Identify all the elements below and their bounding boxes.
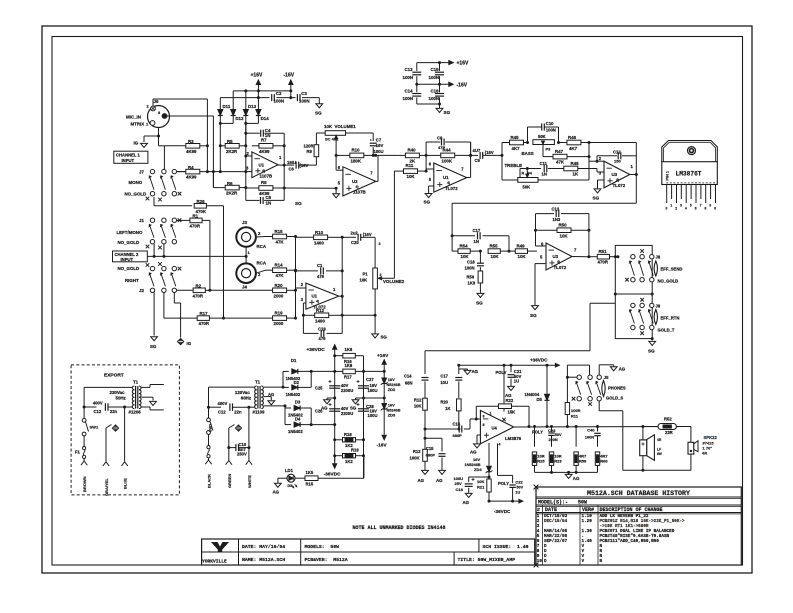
svg-text:AG: AG (619, 367, 626, 372)
svg-text:479: 479 (317, 274, 325, 279)
svg-text:470R: 470R (193, 293, 204, 298)
ground AG C19c (465, 493, 472, 497)
svg-text:680P: 680P (453, 433, 463, 438)
svg-text:4): 4) (557, 260, 560, 264)
ground chassis export (105, 428, 107, 462)
svg-text:R56: R56 (467, 275, 475, 280)
svg-text:1N: 1N (266, 200, 272, 205)
svg-text:R1: R1 (193, 213, 199, 218)
border outer frame (42, 26, 752, 573)
svg-text:POLY: POLY (498, 481, 509, 486)
svg-text:NO_GOLD: NO_GOLD (118, 266, 140, 271)
capacitor C21 POLY (510, 365, 512, 372)
svg-text:AG: AG (573, 476, 580, 481)
svg-text:100N: 100N (546, 128, 556, 133)
svg-text:470R: 470R (199, 321, 210, 326)
capacitor C26 (329, 408, 340, 410)
svg-text:R18: R18 (344, 432, 352, 437)
svg-text:WHITE: WHITE (247, 475, 252, 488)
svg-text:J8: J8 (656, 255, 661, 260)
svg-text:RCA: RCA (257, 261, 267, 266)
svg-text:R15: R15 (306, 481, 314, 486)
svg-text:AG: AG (470, 450, 477, 455)
svg-text:R17: R17 (344, 375, 352, 380)
svg-text:U1: U1 (443, 175, 449, 180)
svg-text:1K: 1K (573, 172, 579, 177)
svg-text:R22: R22 (506, 398, 514, 403)
svg-text:P3: P3 (546, 147, 552, 152)
svg-text:16V: 16V (376, 143, 384, 148)
svg-text:J6: J6 (154, 99, 159, 104)
svg-text:400V: 400V (218, 401, 228, 406)
resistor R55 (500, 250, 509, 252)
wire LM V- pin (497, 444, 499, 476)
wire phones out (598, 401, 600, 411)
capacitor C5 (246, 199, 260, 201)
wire U1b out bus (339, 295, 342, 297)
wire BLUE (124, 407, 126, 462)
svg-text:NO_GOLD: NO_GOLD (118, 240, 140, 245)
svg-text:47K: 47K (276, 273, 285, 278)
wire pin2 stub (246, 155, 252, 157)
wire damp network gnd (535, 471, 598, 473)
svg-text:R20: R20 (440, 400, 448, 405)
svg-text:R44: R44 (443, 147, 452, 152)
resistor R1 (177, 219, 190, 221)
svg-text:100K: 100K (442, 158, 453, 163)
svg-text:LM3876: LM3876 (505, 436, 522, 441)
svg-text:EFF_SEND: EFF_SEND (661, 267, 683, 272)
svg-text:MIC_IN: MIC_IN (126, 115, 141, 120)
resistor R47 (543, 156, 553, 158)
svg-text:C5: C5 (266, 195, 272, 200)
wire amp feed (425, 350, 590, 352)
svg-text:10K: 10K (560, 234, 569, 239)
wire pin3 row (220, 171, 252, 173)
svg-text:1K2: 1K2 (345, 459, 353, 464)
svg-text:100R: 100R (571, 408, 581, 413)
svg-text:SG: SG (476, 301, 483, 306)
svg-text:R10: R10 (315, 230, 324, 235)
connector J9 EFF_RTN (631, 303, 635, 307)
svg-text:1K8: 1K8 (345, 363, 353, 368)
svg-text:10K: 10K (407, 174, 416, 179)
svg-text:R13: R13 (413, 449, 421, 454)
svg-text:SG: SG (444, 110, 451, 115)
svg-text:LM3876T: LM3876T (676, 171, 702, 178)
capacitor C13b fb (536, 213, 555, 215)
svg-text:R3: R3 (188, 139, 194, 144)
svg-text:C7: C7 (376, 138, 382, 143)
svg-text:INPUT: INPUT (122, 158, 135, 163)
svg-text:SG: SG (350, 406, 357, 411)
svg-text:4): 4) (616, 178, 619, 182)
power rail +16V arrow (256, 80, 261, 85)
wire bus A (334, 345, 336, 467)
svg-text:EFF_RTN: EFF_RTN (661, 316, 680, 321)
treble row C11 (520, 168, 541, 170)
wire amp rail (459, 364, 560, 366)
svg-text:SCH ISSUE: 1.40: SCH ISSUE: 1.40 (483, 544, 529, 550)
wire rail upper (233, 90, 291, 92)
svg-text:100U: 100U (368, 388, 378, 393)
svg-text:SW1: SW1 (90, 425, 99, 430)
wire XLR to J7 (158, 136, 160, 146)
diode D4 (294, 422, 300, 427)
zener ZD4 (488, 443, 490, 466)
wire feedback bus left (245, 123, 247, 145)
fuse F1 main (208, 434, 210, 445)
svg-text:D5: D5 (537, 397, 543, 402)
svg-text:C18: C18 (456, 487, 464, 492)
svg-text:U2: U2 (352, 179, 358, 184)
svg-text:ZD4: ZD4 (474, 467, 482, 472)
resistor R14 (256, 270, 265, 273)
svg-text:10K: 10K (360, 278, 368, 283)
wire U3tone pin2 (597, 160, 604, 162)
svg-text:100U: 100U (368, 413, 378, 418)
svg-text:50Hz: 50Hz (116, 396, 127, 401)
power -16V arrow right (449, 82, 454, 87)
svg-text:1K: 1K (445, 406, 450, 411)
svg-text:6: 6 (695, 207, 697, 211)
svg-text:POLY: POLY (532, 430, 543, 435)
svg-text:R4: R4 (188, 165, 194, 170)
capacitor C17c 10U (458, 365, 460, 374)
svg-text:C3: C3 (301, 91, 307, 96)
svg-text:9: 9 (709, 204, 711, 208)
svg-text:R25: R25 (537, 459, 545, 464)
svg-text:479: 479 (319, 336, 327, 341)
svg-text:V: V (582, 559, 585, 564)
capacitor C12 tone fb (589, 160, 597, 162)
svg-text:D11: D11 (223, 104, 231, 109)
svg-text:2: 2 (675, 207, 677, 211)
connector J8 EFF_SEND (631, 255, 635, 259)
svg-text:U3: U3 (553, 254, 559, 259)
wire decouple top rail (417, 62, 450, 64)
svg-text:4): 4) (447, 181, 450, 185)
resistor R12c (423, 398, 428, 410)
wire U3b output (572, 256, 589, 258)
op-amp U3b TL072 eff (536, 245, 547, 247)
svg-text:1: 1 (670, 204, 672, 208)
wire channel2 bus (147, 255, 246, 257)
svg-text:4: 4 (685, 207, 687, 211)
op-amp U3 tone TL072 (604, 161, 630, 188)
svg-text:230Vac: 230Vac (110, 390, 125, 395)
svg-text:YORKVILLE: YORKVILLE (202, 558, 227, 564)
svg-text:1N5402: 1N5402 (286, 392, 301, 397)
ground SG C27 (356, 397, 364, 399)
wire fb verticals (535, 214, 537, 246)
capacitor C18 (479, 251, 481, 263)
resistor R4 (177, 171, 186, 173)
svg-text:1400: 1400 (315, 318, 325, 323)
capacitor C19c 100U (469, 476, 489, 478)
svg-text:100K: 100K (409, 456, 419, 461)
wire rail lower (220, 97, 269, 99)
svg-text:T1: T1 (133, 380, 139, 385)
svg-text:R17: R17 (200, 311, 209, 316)
svg-text:-36VDC: -36VDC (324, 472, 342, 478)
svg-text:D1: D1 (291, 358, 297, 363)
svg-text:PCB&VER: M512A: PCB&VER: M512A (305, 557, 348, 563)
capacitor C10 bass (527, 127, 529, 143)
resistor R46 (559, 142, 567, 144)
svg-text:1K9: 1K9 (468, 281, 476, 286)
svg-text:4): 4) (316, 300, 319, 304)
wire R40 row (378, 154, 398, 156)
wire R6 branch (212, 172, 214, 188)
capacitor C12b main (229, 403, 231, 411)
svg-text:R45: R45 (511, 135, 520, 140)
ground AG C17 (459, 368, 468, 370)
resistor R9 (315, 157, 317, 165)
resistor R19 (335, 455, 343, 457)
svg-text:M512A.SCH DATABASE HISTORY: M512A.SCH DATABASE HISTORY (587, 490, 690, 497)
svg-text:GOLD_T: GOLD_T (658, 328, 675, 333)
svg-text:1N: 1N (542, 172, 547, 177)
svg-text:16V: 16V (473, 457, 480, 462)
svg-text:+16V: +16V (251, 73, 263, 79)
svg-text:1U: 1U (514, 379, 519, 384)
svg-text:1K8: 1K8 (345, 347, 353, 352)
svg-text:C19: C19 (318, 326, 326, 331)
svg-text:BLUE: BLUE (123, 478, 128, 489)
svg-text:SW1: SW1 (209, 424, 213, 432)
svg-text:150: 150 (614, 159, 621, 164)
capacitor C1 (296, 270, 319, 272)
svg-text:4K7: 4K7 (512, 146, 521, 151)
capacitor C9 output 4U7 (471, 154, 478, 156)
svg-text:C18: C18 (467, 260, 475, 265)
svg-text:0: 0 (666, 207, 668, 211)
svg-text:68N: 68N (405, 381, 413, 386)
wire BROWN (81, 461, 84, 465)
capacitor C15 (435, 71, 444, 73)
svg-text:R54: R54 (460, 244, 469, 249)
svg-text:100N: 100N (465, 266, 475, 271)
resistor R51 (589, 256, 597, 258)
svg-text:ZD2: ZD2 (388, 387, 396, 392)
svg-text:GRA/YEL: GRA/YEL (104, 478, 109, 496)
node EXPORT dashed box (71, 365, 179, 495)
svg-text:#W: #W (657, 452, 662, 456)
svg-text:1MU: 1MU (287, 160, 296, 165)
svg-text:C2: C2 (276, 91, 282, 96)
svg-text:P1: P1 (363, 272, 369, 277)
svg-text:TL072: TL072 (554, 265, 567, 270)
svg-text:SG: SG (593, 196, 600, 201)
svg-text:R19: R19 (275, 311, 284, 316)
svg-text:10K VOLUME1: 10K VOLUME1 (324, 124, 356, 129)
svg-text:120Vac: 120Vac (235, 390, 250, 395)
svg-text:C8: C8 (437, 136, 443, 141)
svg-text:10K: 10K (518, 254, 527, 259)
svg-text:4K99: 4K99 (259, 149, 270, 154)
svg-text:ZD3: ZD3 (388, 413, 396, 418)
svg-text:J5: J5 (604, 375, 609, 380)
ground IG chassis chan2 (177, 338, 183, 344)
capacitor C15b (425, 437, 442, 439)
capacitor C14 (412, 93, 421, 95)
svg-text:160N: 160N (585, 436, 594, 440)
svg-text:-16V: -16V (284, 73, 295, 79)
potentiometer VOLUME1 10K (316, 132, 325, 134)
capacitor C22 POLY (509, 484, 515, 486)
svg-text:680P: 680P (426, 453, 436, 458)
svg-text:22n: 22n (110, 409, 118, 414)
svg-text:100N: 100N (274, 99, 285, 104)
ground AG C21 (508, 386, 515, 390)
svg-text:1N: 1N (474, 239, 479, 244)
table corner X marks (534, 485, 539, 490)
svg-text:RIGHT: RIGHT (125, 278, 139, 283)
resistor R45 (502, 142, 510, 144)
wire export primary (84, 386, 132, 388)
wire U1b output (467, 177, 471, 179)
speaker tweeter (690, 427, 692, 443)
ground AG R13 (422, 470, 429, 474)
svg-text:9: 9 (483, 415, 485, 419)
svg-text:R11: R11 (571, 414, 579, 419)
connector J4 RCA (236, 263, 256, 283)
svg-text:J3: J3 (242, 220, 247, 225)
svg-text:+36VDC: +36VDC (530, 358, 548, 363)
svg-text:R23: R23 (554, 459, 562, 464)
wire mixer2 bus (295, 237, 297, 319)
wire XLR pin3 to R6 bus (167, 115, 214, 117)
wire R8 node to U2 pin5 (284, 187, 336, 189)
resistor R2 (177, 289, 194, 291)
resistor R49 (509, 250, 515, 252)
potentiometer BASS 50K (533, 140, 555, 145)
svg-text:4R: 4R (702, 451, 707, 456)
capacitor C19b (303, 332, 318, 334)
svg-text:SG: SG (315, 111, 322, 116)
power rail -16V arrow (289, 80, 294, 85)
svg-text:16V: 16V (388, 403, 395, 408)
svg-text:47K: 47K (276, 240, 285, 245)
resistor R17b (335, 370, 343, 372)
wire U3 output node (635, 173, 638, 176)
node CHANNEL 2 INPUT box (113, 251, 148, 262)
ground SG R56 (477, 293, 484, 297)
svg-text:SC 492: SC 492 (325, 137, 339, 142)
svg-text:#1109: #1109 (253, 410, 266, 415)
capacitor C14b (422, 377, 429, 379)
wire U2 output feedback (376, 180, 378, 182)
resistor R20b (457, 399, 462, 411)
svg-text:1N3: 1N3 (553, 217, 561, 222)
resistor R15 (256, 236, 265, 239)
svg-text:R20: R20 (275, 283, 284, 288)
svg-text:R9: R9 (307, 149, 313, 154)
svg-text:7: 7 (700, 204, 702, 208)
wire LM V+ pin (503, 365, 505, 411)
svg-text:C11: C11 (540, 161, 548, 166)
svg-text:180K: 180K (351, 158, 362, 163)
svg-text:R21: R21 (477, 485, 485, 490)
capacitor C25 (329, 385, 340, 387)
svg-text:C14: C14 (405, 88, 414, 93)
svg-text:LF: LF (657, 448, 661, 452)
wire tone input node (501, 143, 503, 181)
svg-text:10U: 10U (440, 380, 448, 385)
potentiometer TREBLE 50K (519, 169, 521, 181)
resistor R54 (452, 250, 458, 252)
capacitor C16 (435, 93, 444, 95)
svg-text:J9: J9 (656, 304, 661, 309)
capacitor C10b 4n7 (227, 446, 230, 449)
svg-text:R59: R59 (579, 459, 587, 464)
capacitor C28 (358, 408, 369, 410)
svg-text:C27: C27 (366, 377, 374, 382)
svg-text:AG: AG (418, 478, 425, 483)
svg-text:C12: C12 (94, 409, 102, 414)
ground AG C25 (327, 397, 335, 399)
svg-text:C10: C10 (546, 121, 554, 126)
svg-text:IG: IG (134, 141, 139, 146)
svg-text:PIN 1: PIN 1 (665, 171, 669, 181)
svg-text:R55: R55 (490, 244, 499, 249)
resistor R15b (295, 477, 305, 479)
resistor R11 chan2 inject (394, 170, 403, 172)
zener ZD3 (382, 404, 387, 410)
svg-text:400V: 400V (93, 401, 103, 406)
svg-text:-16V: -16V (457, 82, 468, 88)
svg-text:C6: C6 (289, 167, 295, 172)
svg-text:R6: R6 (227, 181, 233, 186)
svg-text:R47: R47 (555, 149, 564, 154)
diode D3 (294, 406, 300, 411)
capacitor C8 feedback (425, 142, 427, 155)
svg-text:4K7: 4K7 (569, 146, 578, 151)
svg-text:VOLUME2: VOLUME2 (383, 279, 405, 284)
wire J2 grounds (153, 293, 155, 336)
svg-text:50V: 50V (516, 486, 523, 490)
svg-text:TITLE: 50W_MIXER_AMP: TITLE: 50W_MIXER_AMP (458, 557, 516, 563)
capacitor C20 2u2 (342, 236, 356, 238)
svg-text:100N: 100N (299, 99, 310, 104)
svg-text:+36VDC: +36VDC (307, 347, 326, 353)
svg-text:N: N (600, 559, 603, 564)
wire decouple bottom (416, 97, 418, 104)
svg-text:BLACK: BLACK (207, 474, 212, 488)
wire BLACK (205, 460, 208, 464)
switch SW1 export (83, 407, 85, 418)
svg-text:TREBLE: TREBLE (505, 163, 523, 168)
svg-text:D: D (544, 559, 547, 564)
svg-text:MONO: MONO (129, 180, 143, 185)
wire J7 ring to R4 (177, 171, 187, 173)
svg-text:AG: AG (472, 369, 479, 374)
svg-text:0: 0 (714, 207, 716, 211)
svg-text:C12: C12 (218, 409, 226, 414)
wire mic bus left (219, 123, 221, 171)
diode D2 (292, 385, 298, 390)
resistor R48 (563, 168, 565, 170)
svg-text:AG: AG (436, 478, 443, 483)
svg-text:RCA: RCA (257, 244, 267, 249)
svg-text:250V: 250V (237, 452, 247, 457)
svg-text:100N: 100N (429, 96, 440, 101)
resistor R13 (423, 449, 428, 461)
svg-text:R48: R48 (571, 161, 580, 166)
resistor R50 (536, 229, 558, 231)
svg-text:C12: C12 (613, 150, 621, 155)
